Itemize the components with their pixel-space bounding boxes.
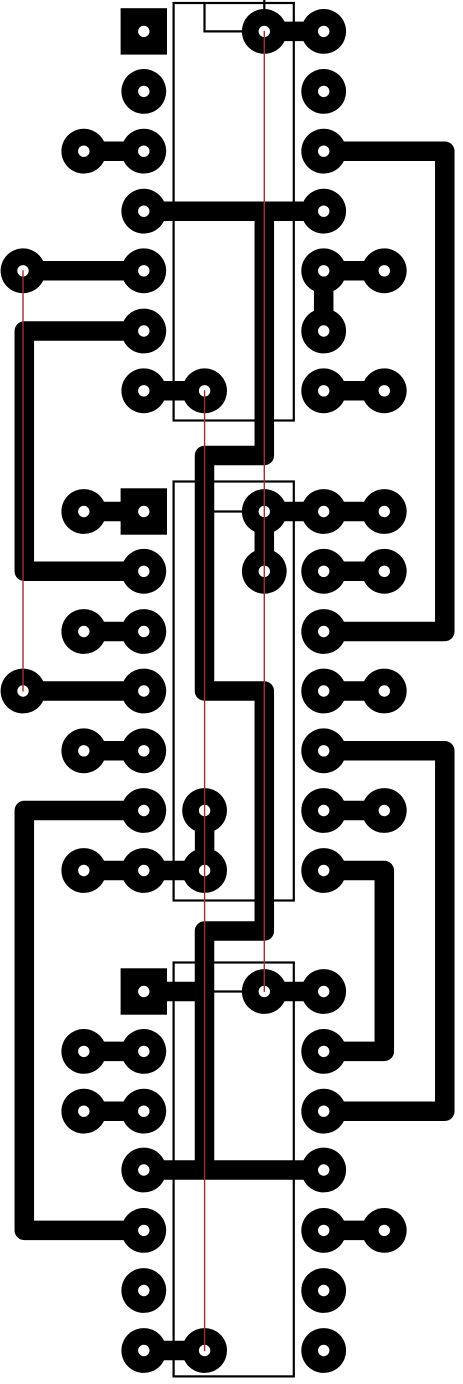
pad G5 (362, 248, 407, 293)
wire F7 to G7 (324, 381, 385, 401)
pad C21 (121, 1328, 166, 1373)
pad C20 (121, 1268, 166, 1313)
pad C4 (121, 189, 166, 234)
wire B16 to C16 (84, 1042, 144, 1062)
wire F5 to F6 bar (314, 271, 334, 331)
wire C7 to D7 (144, 381, 205, 401)
pad C2 (121, 69, 166, 114)
pad F9 (301, 549, 346, 594)
pad G19 (362, 1208, 407, 1253)
pad B8 (61, 489, 106, 534)
pad G9 (362, 549, 407, 594)
pad B16 (61, 1029, 106, 1074)
wire left route R13-R19 (24, 811, 144, 1231)
pad C3 (121, 129, 166, 174)
pad C8 (square pin-1) (121, 488, 167, 534)
pad G13 (362, 788, 407, 833)
pad F7 (301, 368, 346, 413)
wire power net vertical run (row4 down to row18) (205, 211, 265, 1170)
wire C21 to D21 (144, 1341, 205, 1361)
pad C10 (121, 609, 166, 654)
pad F11 (301, 669, 346, 714)
U1 pin-1 notch (205, 3, 243, 31)
pad A11 (1, 669, 46, 714)
pad F16 (301, 1029, 346, 1074)
pad F19 (301, 1208, 346, 1253)
ratsnest net E (E1-E15) (263, 31, 265, 991)
pad D21 (182, 1328, 227, 1373)
pad F18 (301, 1148, 346, 1193)
wire B14 to D14 (84, 861, 205, 881)
pad F17 (301, 1089, 346, 1134)
wire branch to U3 pin1 square pad (144, 982, 205, 1002)
pad F1 (301, 9, 346, 54)
pad C5 (121, 248, 166, 293)
pad C11 (121, 669, 166, 714)
U1 top silk stub at node E (263, 0, 265, 9)
pad C7 (121, 368, 166, 413)
wire right route R14-R16 (324, 871, 385, 1052)
wire right route R3-R10 (324, 151, 445, 631)
wire F5 to G5 (324, 261, 385, 281)
pad F20 (301, 1268, 346, 1313)
op-amp U2 outline (DIP-14 body) (174, 482, 294, 901)
ratsnest net A (A5-A11) (22, 271, 24, 691)
wire left route R6-R9 (24, 331, 144, 571)
pad G7 (362, 368, 407, 413)
pad F10 (301, 609, 346, 654)
op-amp U1 outline (DIP-14 body) (174, 3, 294, 421)
pad D13 (182, 788, 227, 833)
pad F6 (301, 309, 346, 354)
pad C19 (121, 1208, 166, 1253)
pad C9 (121, 549, 166, 594)
pad F13 (301, 788, 346, 833)
pad E8 (242, 489, 287, 534)
U3 pin-1 notch (205, 963, 243, 992)
pad F2 (301, 69, 346, 114)
wire E1 to F1 (264, 22, 323, 42)
wire B12 to C12 (84, 741, 144, 761)
pad F21 (301, 1328, 346, 1373)
pad C1 (square pin-1) (121, 8, 167, 54)
wire B3 to C3 (84, 141, 144, 161)
wire E8 to F8 (264, 502, 323, 522)
pad A5 (1, 248, 46, 293)
wire B8 to C8 (84, 502, 144, 522)
wire E8 to E9 bar (255, 512, 275, 572)
wire U1 pin4 to pin11 (row4 bus) (144, 201, 324, 221)
pad E1 (242, 9, 287, 54)
pad F8 (301, 489, 346, 534)
pad F3 (301, 129, 346, 174)
pad C14 (121, 848, 166, 893)
pad D14 (182, 848, 227, 893)
pad D7 (182, 368, 227, 413)
wire F11 to G11 (324, 681, 385, 701)
pad F14 (301, 848, 346, 893)
pad G11 (362, 669, 407, 714)
wire D13 to D14 bar (195, 811, 215, 871)
pad C13 (121, 788, 166, 833)
pad F5 (301, 248, 346, 293)
pad F15 (301, 969, 346, 1014)
pad E9 (242, 549, 287, 594)
wire A5 to C5 (23, 261, 144, 281)
pad G8 (362, 489, 407, 534)
pad C15 (square pin-1) (121, 968, 167, 1014)
pad B12 (61, 728, 106, 773)
wire B10 to C10 (84, 622, 144, 642)
pad B3 (61, 129, 106, 174)
wire F8 to G8 (324, 502, 385, 522)
pad B10 (61, 609, 106, 654)
wire B17 to C17 (84, 1101, 144, 1121)
op-amp U3 outline (DIP-14 body) (174, 963, 294, 1377)
pad F4 (301, 189, 346, 234)
wire right route R12-R17 (324, 751, 445, 1111)
pad F12 (301, 728, 346, 773)
U2 pin-1 notch (205, 482, 243, 512)
pad E15 (242, 969, 287, 1014)
wire F9 to G9 (324, 562, 385, 582)
pad C17 (121, 1089, 166, 1134)
pad C16 (121, 1029, 166, 1074)
wire U3 row18 bus (144, 1160, 324, 1180)
pad B14 (61, 848, 106, 893)
pad B17 (61, 1089, 106, 1134)
pad C6 (121, 309, 166, 354)
pad C18 (121, 1148, 166, 1193)
wire F19 to G19 (324, 1221, 385, 1241)
pad C12 (121, 728, 166, 773)
wire F13 to G13 (324, 801, 385, 821)
wire E15 to F15 (264, 982, 323, 1002)
wire A11 to C11 (23, 681, 144, 701)
ratsnest net D (D7-D21) (204, 391, 206, 1351)
